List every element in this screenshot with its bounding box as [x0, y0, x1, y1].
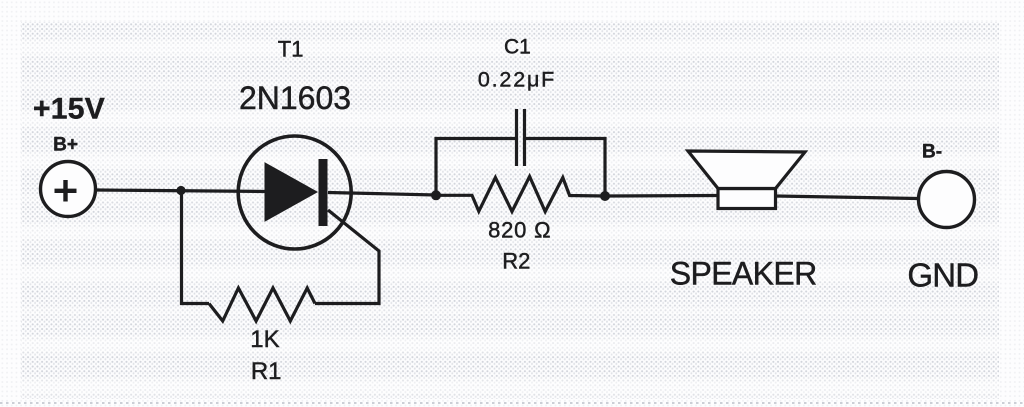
resistor R2 zigzag	[436, 177, 605, 212]
scan edge line at bottom	[0, 402, 1024, 404]
svg-text:GND: GND	[907, 257, 978, 294]
svg-text:820 Ω: 820 Ω	[488, 218, 551, 243]
svg-text:1K: 1K	[250, 326, 279, 353]
node junction dot left	[176, 186, 185, 195]
plus symbol inside B+ terminal	[55, 180, 77, 202]
capacitor C1 left lead	[436, 139, 515, 196]
svg-text:R2: R2	[502, 248, 530, 273]
wire B+ to transistor	[96, 190, 269, 192]
wire speaker to GND	[776, 196, 919, 199]
svg-text:0.22μF: 0.22μF	[478, 68, 556, 92]
diode anode triangle	[265, 163, 317, 221]
wire junction down to R1	[182, 191, 210, 304]
capacitor C1 right lead	[526, 139, 605, 197]
diode cathode bar	[319, 159, 328, 226]
svg-text:B+: B+	[53, 135, 78, 156]
wire R2 node to speaker	[605, 194, 718, 198]
svg-text:+15V: +15V	[33, 93, 105, 126]
capacitor C1 right plate	[523, 109, 526, 166]
svg-text:2N1603: 2N1603	[239, 80, 351, 116]
battery B- GND terminal circle	[919, 172, 975, 228]
svg-text:C1: C1	[504, 36, 531, 59]
speaker driver rectangle	[718, 189, 776, 209]
svg-text:B-: B-	[922, 142, 942, 163]
svg-text:SPEAKER: SPEAKER	[670, 256, 817, 292]
resistor R1 zigzag	[209, 288, 315, 321]
svg-text:T1: T1	[278, 37, 304, 62]
node junction dot R2 right	[600, 191, 610, 201]
transistor T1 circle	[238, 136, 351, 249]
wire R1 right lead to diode cathode	[315, 210, 379, 304]
node junction dot R2 left	[431, 190, 441, 200]
capacitor C1 left plate	[515, 109, 518, 166]
svg-text:R1: R1	[251, 358, 282, 385]
wire diode to R2 node	[328, 193, 436, 196]
battery B+ terminal circle	[41, 162, 96, 217]
speaker cone trapezoid	[688, 151, 805, 189]
